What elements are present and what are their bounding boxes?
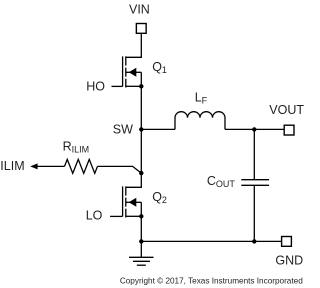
inductor LF	[175, 112, 225, 130]
terminal VIN	[136, 24, 146, 34]
svg-text:SW: SW	[113, 123, 133, 137]
svg-text:HO: HO	[86, 80, 105, 94]
terminal GND	[282, 237, 292, 247]
svg-text:VIN: VIN	[129, 3, 150, 17]
junction Q2 source	[139, 214, 143, 218]
wire SW to inductor	[141, 128, 175, 130]
junction COUT bottom node	[252, 239, 256, 243]
wire node to VOUT terminal	[254, 128, 284, 130]
node SW junction	[139, 127, 143, 131]
wire SW to ILIM node	[140, 129, 142, 173]
ground	[129, 241, 154, 265]
wire Q1 source to SW	[140, 86, 142, 129]
terminal VOUT	[284, 125, 294, 135]
wire inductor to COUT node	[225, 128, 254, 130]
wire HO to Q1 gate	[112, 85, 123, 87]
svg-text:VOUT: VOUT	[269, 103, 304, 117]
wire LO to Q2 gate	[110, 215, 123, 217]
wire VIN terminal to Q1 drain	[126, 33, 142, 57]
wire RILIM to trunk	[98, 166, 142, 173]
resistor RILIM	[65, 159, 98, 173]
svg-text:ILIM: ILIM	[0, 159, 24, 173]
junction COUT top node	[252, 127, 256, 131]
capacitor COUT	[241, 180, 269, 186]
transistor Q2	[123, 186, 142, 217]
junction Q1 source	[139, 84, 143, 88]
junction ground node	[139, 239, 143, 243]
wire ground rail	[141, 240, 281, 242]
wire capacitor to ground rail	[253, 186, 255, 242]
junction ILIM node	[139, 171, 143, 175]
wire Q2 source to ground node	[140, 216, 142, 241]
svg-text:Copyright © 2017, Texas Instru: Copyright © 2017, Texas Instruments Inco…	[120, 276, 303, 285]
arrow ILIM	[30, 163, 64, 169]
transistor Q1	[123, 56, 142, 87]
svg-text:LO: LO	[86, 209, 103, 223]
wire COUT node to capacitor	[253, 129, 255, 179]
wire node to Q2 drain	[126, 173, 142, 187]
svg-text:GND: GND	[275, 253, 303, 267]
